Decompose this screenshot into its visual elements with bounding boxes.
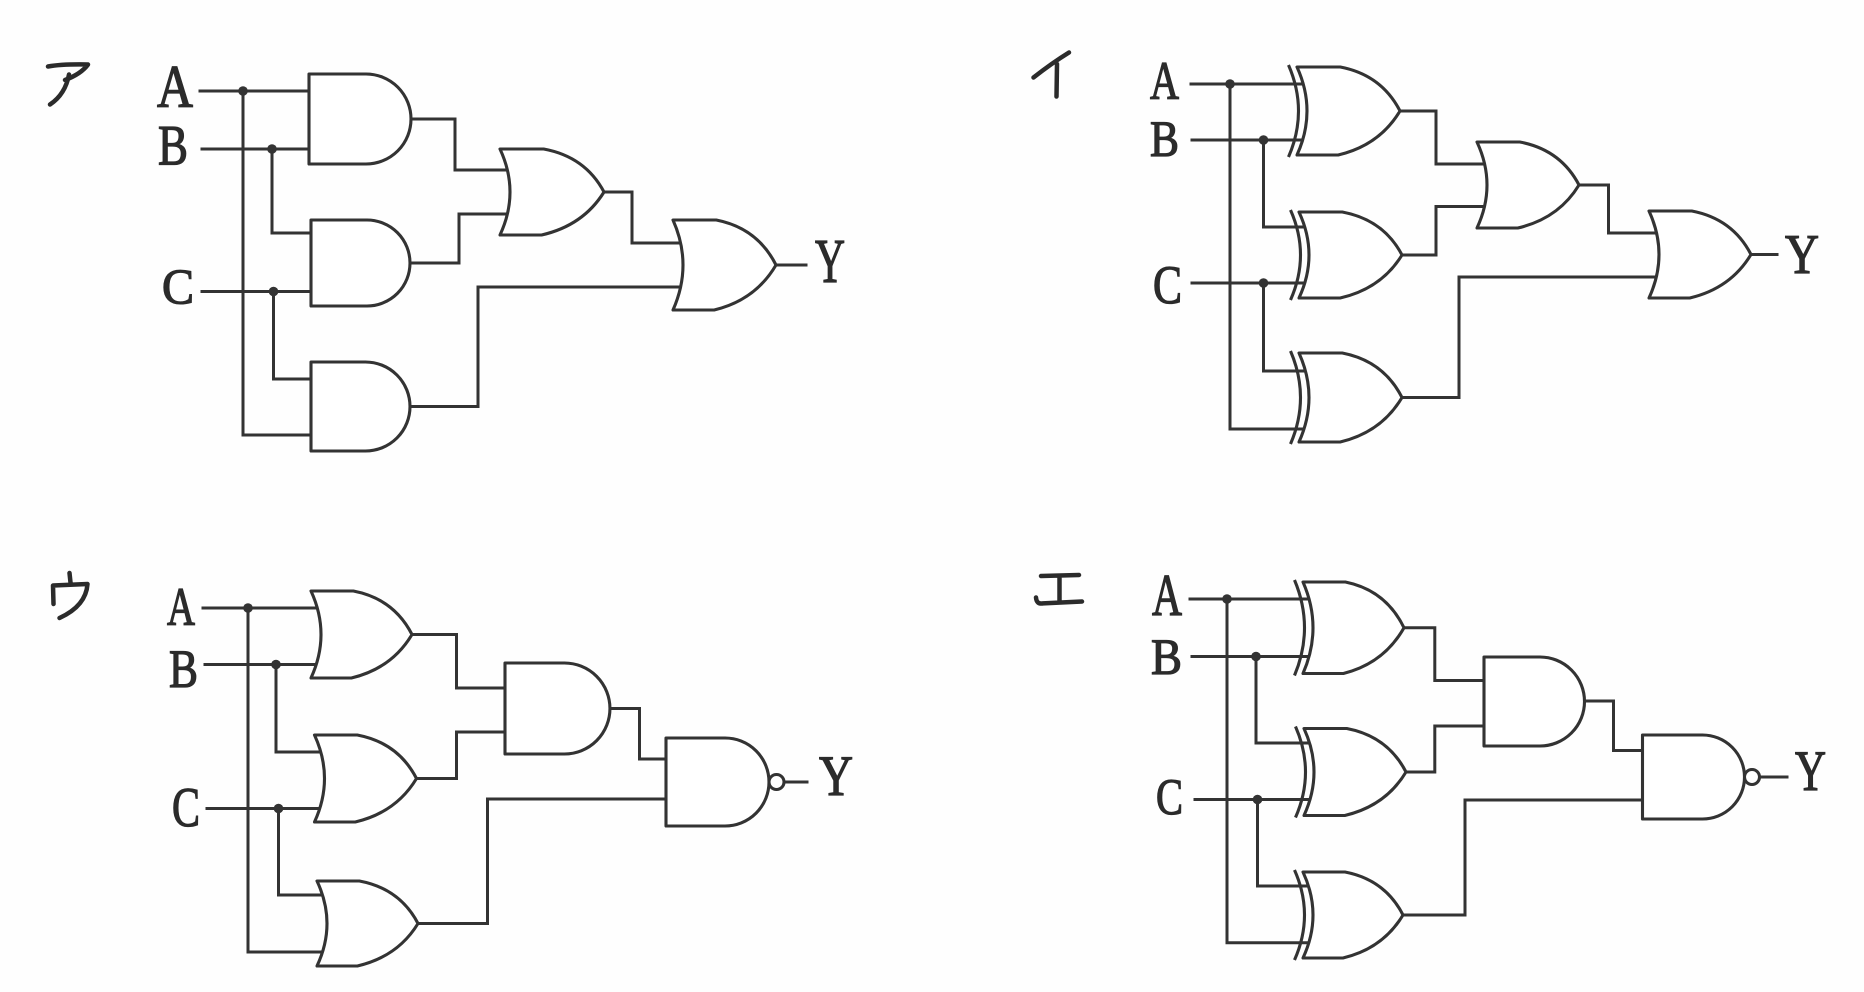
junction node C (circuit 3): [274, 804, 284, 814]
svg-text:Y: Y: [1785, 224, 1819, 286]
junction node A (circuit 2): [1225, 79, 1235, 89]
wire B branch down to XOR2 (circuit 4): [1256, 657, 1312, 744]
XOR gate G2 inputs B,C (circuit 2): [1299, 212, 1402, 298]
svg-text:B: B: [1151, 630, 1182, 686]
wire A branch down to OR3 (circuit 3): [248, 608, 327, 952]
NAND gate G5 output stage (circuit 3): [666, 738, 769, 826]
wire input B (circuit 4): [1192, 655, 1311, 658]
wire G3 output to NAND5 (circuit 3): [418, 799, 666, 924]
junction node B (circuit 1): [267, 144, 277, 154]
OR gate G1 inputs A,B (circuit 3): [311, 591, 412, 678]
svg-text:B: B: [1150, 112, 1179, 168]
OR gate G5 output stage (circuit 1): [673, 220, 776, 310]
wire input A (circuit 4): [1190, 598, 1311, 601]
label katakana I (circuit 2 heading): [1034, 53, 1070, 97]
wire G1 output to AND4 (circuit 3): [412, 635, 505, 689]
svg-text:C: C: [1156, 770, 1183, 826]
wire G5 output to Y (circuit 1): [776, 264, 806, 267]
wire input C (circuit 1): [202, 290, 311, 293]
wire G4 output to OR5 (circuit 1): [604, 192, 681, 243]
wire C branch down to AND3 (circuit 1): [274, 292, 312, 380]
svg-text:C: C: [172, 777, 200, 839]
wire input B (circuit 2): [1192, 139, 1305, 142]
svg-text:B: B: [158, 115, 188, 178]
wire C branch down to OR3 (circuit 3): [279, 809, 328, 896]
XOR gate G1 inputs A,B (circuit 2): [1297, 67, 1400, 155]
AND gate G3 inputs C,A (circuit 1): [311, 362, 410, 451]
junction node B (circuit 3): [271, 660, 281, 670]
svg-text:Y: Y: [815, 228, 845, 296]
svg-text:A: A: [1150, 51, 1179, 111]
OR gate G2 inputs B,C (circuit 3): [315, 735, 417, 822]
wire input C (circuit 3): [207, 807, 325, 810]
svg-text:C: C: [162, 258, 194, 314]
svg-text:A: A: [1152, 562, 1182, 628]
OR gate G4 (circuit 1): [500, 149, 604, 235]
wire A branch down to XOR3 (circuit 4): [1227, 599, 1311, 943]
svg-text:Y: Y: [1795, 740, 1826, 803]
wire B branch down to OR2 (circuit 3): [276, 665, 324, 753]
junction node A (circuit 4): [1222, 594, 1232, 604]
wire input C (circuit 4): [1195, 798, 1311, 801]
XOR gate G2 inputs B,C (circuit 4): [1304, 729, 1406, 816]
wire G2 output to AND4 (circuit 3): [417, 732, 506, 779]
junction node C (circuit 2): [1259, 278, 1269, 288]
wire G1 output to OR4 (circuit 2): [1400, 111, 1485, 164]
wire G2 output to OR4 (circuit 1): [410, 214, 508, 263]
wire G5 output to Y (circuit 4): [1760, 776, 1788, 779]
OR gate G5 output stage (circuit 2): [1649, 211, 1751, 298]
wire G3 output to OR5 (circuit 2): [1402, 277, 1657, 398]
wire G5 output to Y (circuit 3): [785, 781, 808, 784]
wire G4 output to NAND5 (circuit 3): [610, 709, 666, 760]
junction node A (circuit 3): [243, 603, 253, 613]
wire C branch down to XOR3 (circuit 2): [1264, 283, 1308, 371]
wire G2 output to OR4 (circuit 2): [1402, 207, 1485, 256]
wire G4 output to NAND5 (circuit 4): [1585, 701, 1643, 751]
wire G1 output to OR4 (circuit 1): [411, 119, 508, 170]
wire A branch down to AND3 (circuit 1): [243, 91, 311, 435]
junction node C (circuit 1): [269, 287, 279, 297]
label katakana A (circuit 1 heading): [48, 64, 88, 104]
AND gate G1 inputs A,B (circuit 1): [309, 74, 411, 164]
label katakana E (circuit 4 heading): [1036, 575, 1082, 604]
wire G1 output to AND4 (circuit 4): [1404, 628, 1493, 681]
svg-text:Y: Y: [819, 745, 853, 808]
AND gate G4 (circuit 4): [1484, 657, 1585, 746]
svg-text:A: A: [167, 577, 195, 637]
junction node A (circuit 1): [238, 86, 248, 96]
label katakana U (circuit 3 heading): [53, 573, 88, 618]
wire G3 output to OR5 (circuit 1): [410, 287, 681, 407]
svg-text:C: C: [1153, 255, 1182, 315]
wire B branch down to XOR2 (circuit 2): [1264, 140, 1308, 227]
AND gate G2 inputs B,C (circuit 1): [311, 220, 410, 306]
wire G5 output to Y (circuit 2): [1751, 253, 1777, 256]
junction node C (circuit 4): [1253, 795, 1263, 805]
svg-text:A: A: [157, 54, 193, 120]
AND gate G4 (circuit 3): [505, 663, 610, 754]
wire C branch down to XOR3 (circuit 4): [1258, 800, 1312, 887]
wire input A (circuit 2): [1191, 83, 1305, 86]
XOR gate G3 inputs C,A (circuit 2): [1299, 353, 1402, 442]
XOR gate G3 inputs C,A (circuit 4): [1303, 872, 1403, 958]
wire input B (circuit 3): [205, 663, 321, 666]
wire G2 output to AND4 (circuit 4): [1406, 726, 1493, 772]
svg-text:B: B: [169, 639, 198, 699]
junction node B (circuit 4): [1251, 652, 1261, 662]
wire G4 output to OR5 (circuit 2): [1579, 185, 1657, 233]
wire B branch down to AND2 (circuit 1): [272, 149, 311, 233]
wire input B (circuit 1): [202, 148, 309, 151]
OR gate G3 inputs C,A (circuit 3): [317, 881, 418, 966]
XOR gate G1 inputs A,B (circuit 4): [1303, 582, 1404, 674]
wire A branch down to XOR3 (circuit 2): [1230, 84, 1307, 429]
junction node B (circuit 2): [1259, 135, 1269, 145]
NAND gate G5 output stage (circuit 4): [1643, 735, 1745, 819]
wire input A (circuit 3): [203, 607, 321, 610]
wire G3 output to NAND5 (circuit 4): [1403, 800, 1643, 915]
wire input C (circuit 2): [1192, 282, 1306, 285]
wire input A (circuit 1): [200, 90, 309, 93]
OR gate G4 (circuit 2): [1477, 142, 1579, 228]
